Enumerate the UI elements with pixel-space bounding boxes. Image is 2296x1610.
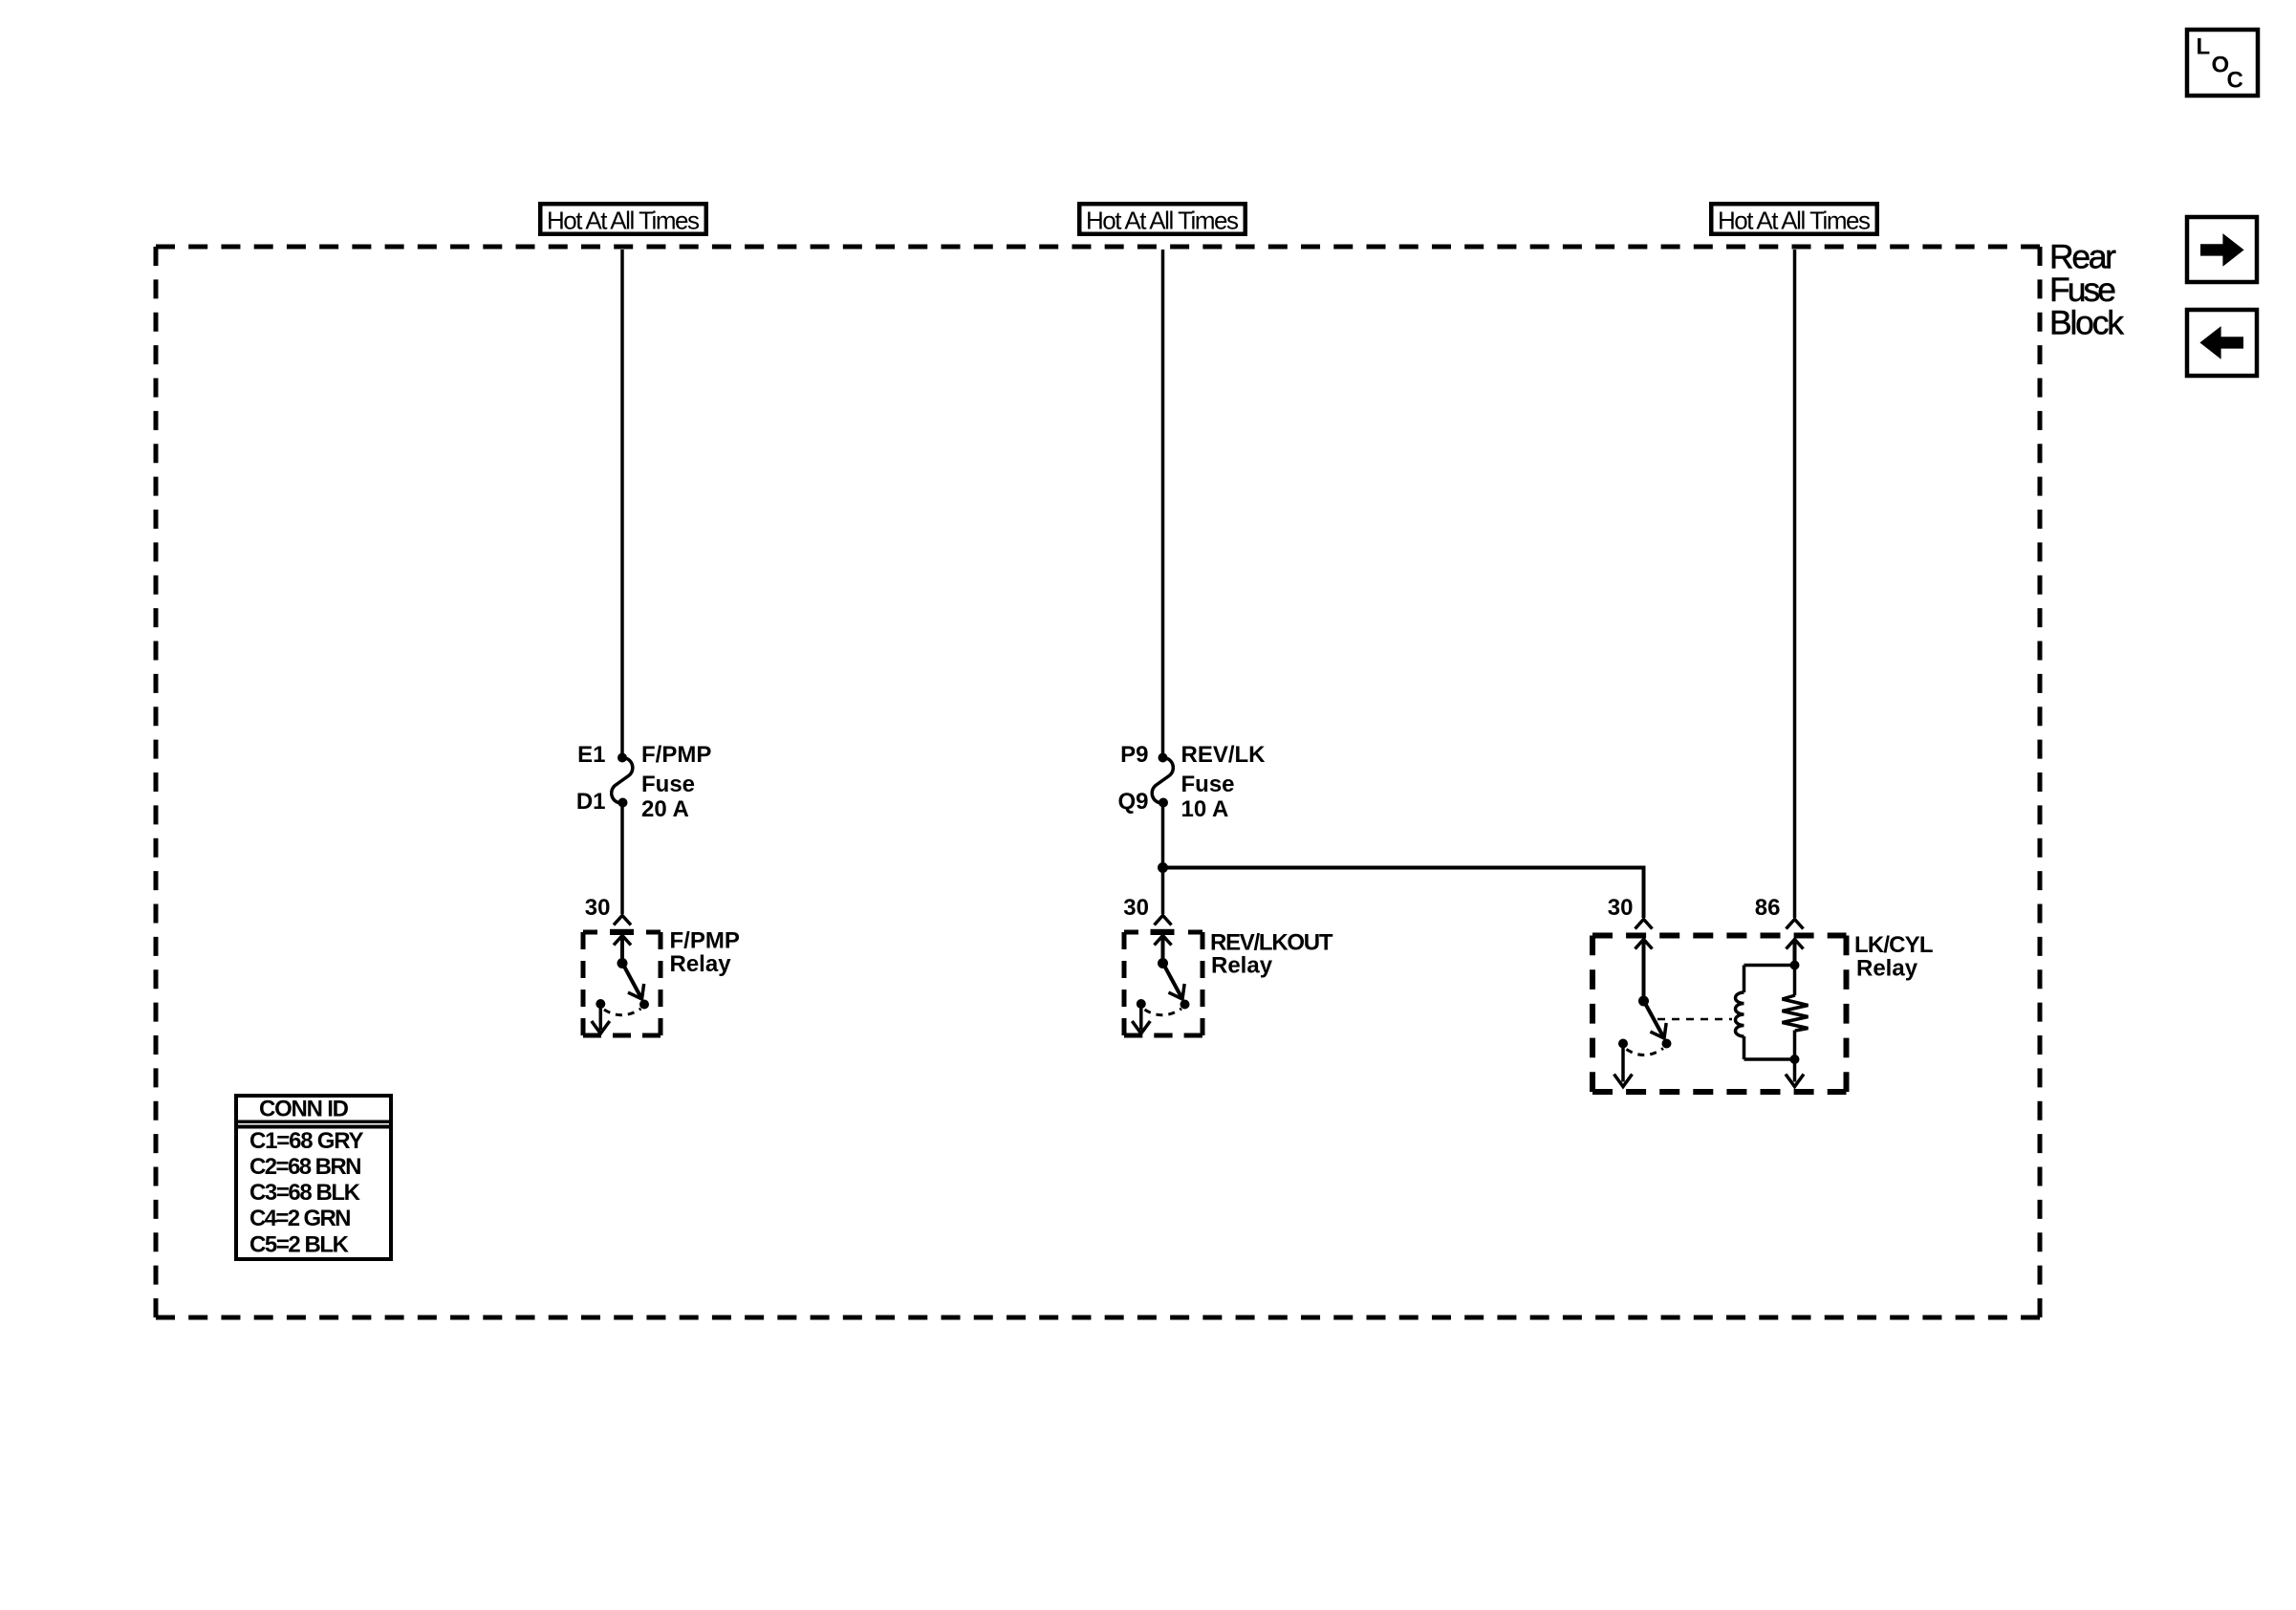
node coil top junction dot — [1790, 961, 1800, 970]
junction node dot col2 — [1158, 862, 1168, 873]
pin 30 chevron — [1635, 920, 1653, 929]
contact dot right — [1662, 1039, 1672, 1049]
switch arm with arrowhead — [1163, 964, 1182, 999]
wire feed 1 — [620, 250, 624, 753]
relay REV/LKOUT — [1123, 895, 1333, 1035]
svg-text:L: L — [2197, 34, 2211, 60]
pivot dot — [617, 958, 628, 968]
wire junction to LK/CYL relay pin30 — [1163, 868, 1644, 919]
rear fuse block dashed boundary box — [156, 247, 2040, 1317]
switch arm with arrowhead — [623, 964, 642, 999]
contact bar pin 30 — [1151, 929, 1175, 935]
up arrow pin86 — [1787, 940, 1804, 949]
svg-text:P9: P9 — [1120, 742, 1148, 768]
svg-text:C5=2 BLK: C5=2 BLK — [249, 1231, 350, 1257]
wire fuse1 to relay1 — [620, 803, 624, 914]
contact dot left — [1618, 1039, 1628, 1049]
switch arm with arrowhead — [1644, 1002, 1664, 1039]
svg-text:30: 30 — [585, 895, 611, 921]
wire feed 2 — [1161, 250, 1165, 753]
wire fuse2 to relay2 — [1161, 803, 1165, 914]
wire feed 3 — [1793, 250, 1797, 918]
svg-text:C4=2 GRN: C4=2 GRN — [249, 1206, 352, 1231]
Hot At All Times box 3 — [1711, 204, 1877, 234]
svg-text:LK/CYL: LK/CYL — [1854, 932, 1934, 958]
wire top rail — [1744, 964, 1795, 968]
pivot dot — [1158, 958, 1168, 968]
relay2 dashed box — [1124, 930, 1138, 935]
fuse F/PMP element squiggle — [612, 757, 633, 803]
relay3 dashed box — [1592, 933, 1847, 939]
svg-text:20 A: 20 A — [641, 796, 689, 822]
down arrow from left contact — [1621, 1044, 1625, 1082]
contact dot left — [1137, 999, 1146, 1009]
wire coil drop — [1743, 966, 1746, 993]
svg-text:Q9: Q9 — [1117, 789, 1148, 815]
svg-text:86: 86 — [1755, 895, 1781, 921]
svg-text:Relay: Relay — [670, 951, 732, 977]
svg-text:D1: D1 — [576, 789, 606, 815]
label Rear Fuse Block — [2049, 238, 2124, 342]
svg-text:Block: Block — [2049, 304, 2124, 342]
wire coil to bottom rail — [1743, 1036, 1746, 1059]
svg-text:Relay: Relay — [1211, 953, 1273, 979]
Hot At All Times box 2 — [1079, 204, 1245, 234]
down arrow from 87a — [599, 1004, 603, 1031]
label REV/LK Fuse 10 A — [1181, 742, 1267, 822]
svg-text:C1=68 GRY: C1=68 GRY — [249, 1128, 364, 1154]
node P9 terminal dot — [1159, 753, 1168, 763]
dashed travel arc — [1145, 1009, 1182, 1015]
svg-text:F/PMP: F/PMP — [670, 928, 740, 954]
svg-text:30: 30 — [1123, 895, 1149, 921]
mechanical link dashed — [1657, 1018, 1732, 1021]
LOC page icon — [2187, 30, 2258, 96]
svg-text:REV/LK: REV/LK — [1181, 742, 1267, 768]
fuse REV/LK element squiggle — [1152, 757, 1173, 803]
pin 86 chevron — [1787, 920, 1804, 929]
relay LK/CYL — [1592, 895, 1934, 1092]
contact dot (87a) — [596, 999, 605, 1009]
Hot At All Times box 1 — [540, 204, 706, 234]
contact bar pin 30 — [610, 929, 634, 935]
pivot dot — [1638, 996, 1649, 1007]
svg-text:Hot At All Times: Hot At All Times — [1086, 207, 1239, 235]
coil winding — [1736, 992, 1744, 1036]
right-arrow nav icon — [2187, 217, 2257, 282]
left-arrow nav icon — [2187, 310, 2257, 376]
contact dot (87) — [639, 1000, 649, 1010]
svg-text:CONN ID: CONN ID — [259, 1097, 349, 1122]
up arrow to contact — [1155, 936, 1172, 946]
node Q9 terminal dot — [1159, 798, 1168, 808]
relay1 dashed box — [583, 930, 597, 935]
svg-text:30: 30 — [1608, 895, 1634, 921]
contact dot — [1180, 1000, 1190, 1010]
node coil bottom junction dot — [1790, 1055, 1800, 1064]
node D1 terminal dot — [618, 798, 628, 808]
svg-text:REV/LKOUT: REV/LKOUT — [1210, 930, 1333, 956]
pin 30 chevron — [614, 916, 631, 925]
svg-text:Fuse: Fuse — [641, 772, 695, 797]
pin 30 chevron — [1155, 916, 1172, 925]
dashed travel arc — [1627, 1049, 1664, 1055]
svg-text:C3=68 BLK: C3=68 BLK — [249, 1180, 361, 1206]
svg-text:E1: E1 — [577, 742, 605, 768]
svg-text:F/PMP: F/PMP — [641, 742, 711, 768]
svg-text:10 A: 10 A — [1181, 796, 1229, 822]
svg-text:Relay: Relay — [1856, 956, 1918, 982]
relay F/PMP — [583, 895, 740, 1035]
dashed travel arc — [604, 1009, 641, 1015]
resistor element — [1793, 966, 1797, 996]
node E1 terminal dot — [617, 753, 627, 763]
svg-text:C: C — [2227, 68, 2243, 94]
svg-text:C2=68 BRN: C2=68 BRN — [249, 1154, 362, 1180]
label F/PMP Fuse 20 A — [641, 742, 711, 822]
svg-text:Hot At All Times: Hot At All Times — [547, 207, 700, 235]
svg-text:Hot At All Times: Hot At All Times — [1718, 207, 1871, 235]
svg-text:Fuse: Fuse — [1181, 772, 1235, 797]
wire bottom rail — [1744, 1057, 1795, 1061]
up arrow to contact — [614, 936, 631, 946]
up arrow pin30 — [1635, 940, 1653, 949]
down arrow — [1139, 1004, 1143, 1031]
down arrow pin 85 — [1793, 1059, 1797, 1082]
CONN ID table — [236, 1096, 391, 1259]
